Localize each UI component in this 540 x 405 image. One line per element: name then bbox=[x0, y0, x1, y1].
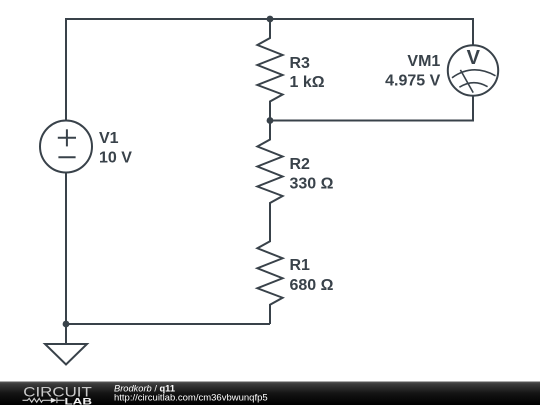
svg-text:R2: R2 bbox=[290, 156, 311, 173]
voltmeter VM1 bbox=[448, 45, 498, 95]
svg-text:1 kΩ: 1 kΩ bbox=[290, 74, 325, 91]
svg-text:LAB: LAB bbox=[65, 396, 93, 405]
wire top: V1 to node A bbox=[66, 19, 270, 97]
ground node junction bbox=[63, 321, 70, 328]
wire left vertical: V1 to ground node bbox=[65, 197, 67, 324]
node B junction bbox=[267, 117, 274, 124]
svg-text:4.975 V: 4.975 V bbox=[385, 73, 440, 90]
logo resistor squiggle and diode bbox=[23, 398, 65, 404]
svg-text:330 Ω: 330 Ω bbox=[290, 176, 334, 193]
node A junction bbox=[267, 16, 274, 23]
svg-text:http://circuitlab.com/cm36vbwu: http://circuitlab.com/cm36vbwunqfp5 bbox=[114, 392, 268, 403]
svg-text:VM1: VM1 bbox=[407, 53, 440, 70]
voltage source V1 bbox=[40, 97, 92, 197]
svg-text:V1: V1 bbox=[99, 130, 119, 147]
resistor R1 bbox=[257, 222, 282, 324]
svg-text:10 V: 10 V bbox=[99, 150, 132, 167]
ground bbox=[45, 324, 87, 365]
wire top: node A to VM1 bbox=[270, 19, 473, 45]
svg-text:R1: R1 bbox=[290, 257, 311, 274]
svg-text:R3: R3 bbox=[290, 55, 311, 72]
svg-text:680 Ω: 680 Ω bbox=[290, 277, 334, 294]
svg-text:V: V bbox=[467, 47, 481, 69]
wire bottom: ground node to R1 bbox=[66, 323, 270, 325]
resistor R2 bbox=[257, 121, 282, 223]
resistor R3 bbox=[257, 19, 282, 121]
wire: node B to VM1 bottom bbox=[270, 96, 473, 121]
